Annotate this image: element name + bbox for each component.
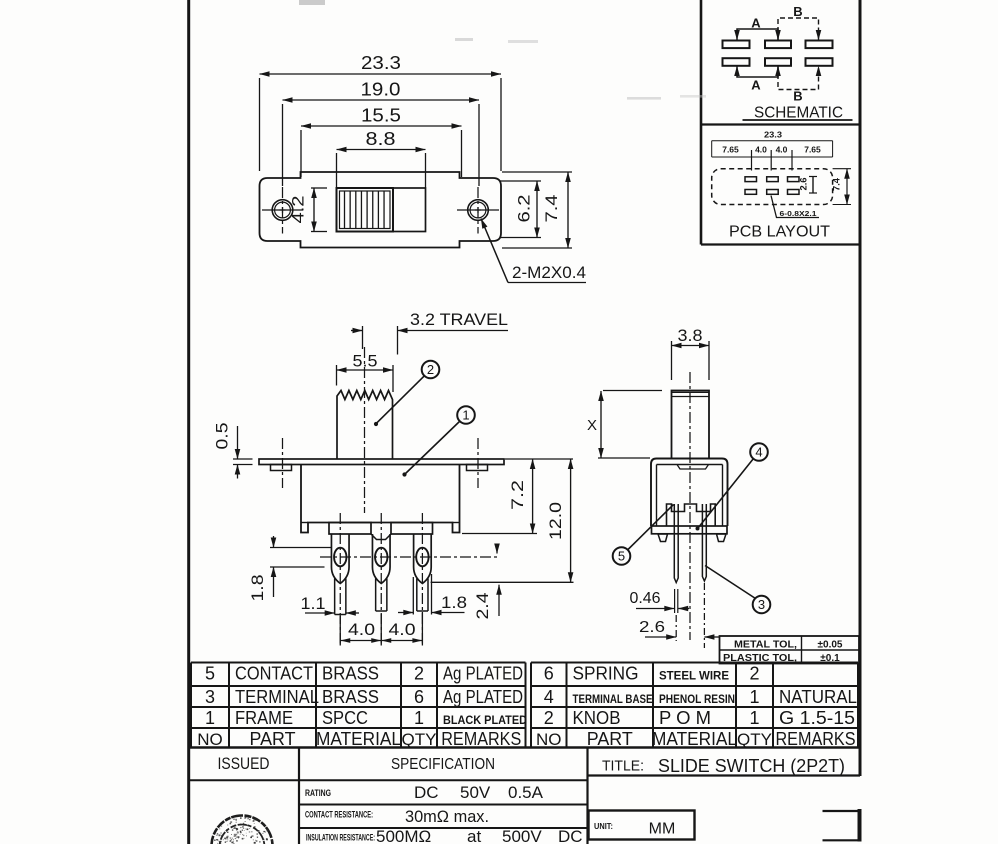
svg-text:TERMINAL BASE: TERMINAL BASE — [573, 694, 653, 706]
svg-text:KNOB: KNOB — [573, 708, 621, 728]
svg-text:MATERIAL: MATERIAL — [316, 729, 401, 749]
svg-text:4.0: 4.0 — [776, 145, 788, 155]
svg-text:2-M2X0.4: 2-M2X0.4 — [512, 264, 586, 282]
svg-text:B: B — [793, 89, 802, 104]
svg-text:Ag PLATED: Ag PLATED — [443, 687, 523, 707]
svg-text:7.65: 7.65 — [722, 145, 739, 155]
svg-text:4: 4 — [755, 445, 762, 460]
svg-text:INSULATION RESISTANCE:: INSULATION RESISTANCE: — [306, 833, 375, 843]
svg-text:PCB LAYOUT: PCB LAYOUT — [729, 224, 831, 241]
svg-text:RATING: RATING — [305, 788, 331, 798]
svg-text:500MΩ: 500MΩ — [376, 827, 431, 844]
svg-text:4.0: 4.0 — [389, 620, 416, 639]
svg-text:PART: PART — [587, 729, 633, 749]
svg-text:TITLE:: TITLE: — [602, 759, 644, 775]
svg-text:REMARKS: REMARKS — [776, 729, 856, 749]
svg-text:SLIDE SWITCH (2P2T): SLIDE SWITCH (2P2T) — [658, 755, 845, 776]
svg-text:BLACK PLATED: BLACK PLATED — [443, 715, 527, 727]
svg-text:4.0: 4.0 — [348, 620, 375, 639]
svg-text:1.8: 1.8 — [248, 575, 267, 602]
svg-text:MATERIAL: MATERIAL — [652, 729, 737, 749]
svg-text:2.4: 2.4 — [473, 593, 492, 620]
svg-text:CONTACT: CONTACT — [235, 664, 313, 684]
svg-text:B: B — [793, 4, 802, 19]
svg-text:REMARKS: REMARKS — [441, 729, 521, 749]
svg-text:6: 6 — [414, 687, 424, 707]
svg-text:30mΩ max.: 30mΩ max. — [405, 807, 489, 826]
svg-text:FRAME: FRAME — [235, 708, 293, 728]
svg-text:7.65: 7.65 — [804, 145, 821, 155]
svg-text:PHENOL RESIN: PHENOL RESIN — [659, 694, 735, 706]
svg-text:3: 3 — [758, 597, 765, 612]
svg-text:4.2: 4.2 — [289, 196, 308, 224]
svg-text:MM: MM — [649, 821, 676, 838]
svg-text:3: 3 — [205, 687, 215, 707]
svg-text:NATURAL: NATURAL — [779, 687, 857, 707]
svg-text:DC: DC — [414, 783, 439, 802]
svg-text:12.0: 12.0 — [546, 502, 565, 540]
svg-text:SPCC: SPCC — [322, 708, 368, 728]
svg-text:7.4: 7.4 — [542, 195, 561, 223]
svg-text:1: 1 — [414, 708, 424, 728]
svg-text:1: 1 — [462, 408, 469, 423]
svg-text:7.4: 7.4 — [832, 178, 842, 191]
svg-text:±0.05: ±0.05 — [818, 639, 843, 650]
svg-text:CONTACT RESISTANCE:: CONTACT RESISTANCE: — [305, 810, 373, 820]
svg-text:2: 2 — [749, 664, 759, 684]
svg-text:A: A — [751, 16, 761, 31]
svg-text:23.3: 23.3 — [361, 53, 401, 73]
svg-text:PART: PART — [250, 729, 296, 749]
svg-text:Ag PLATED: Ag PLATED — [443, 664, 523, 684]
svg-text:BRASS: BRASS — [322, 664, 379, 684]
svg-text:BRASS: BRASS — [322, 687, 379, 707]
svg-text:6-0.8X2.1: 6-0.8X2.1 — [780, 209, 817, 218]
svg-text:DC: DC — [558, 827, 583, 844]
svg-text:SCHEMATIC: SCHEMATIC — [754, 105, 843, 122]
svg-text:8.8: 8.8 — [366, 129, 396, 149]
svg-text:X: X — [587, 417, 597, 434]
svg-text:at: at — [467, 827, 481, 844]
svg-text:2: 2 — [544, 708, 554, 728]
svg-text:1: 1 — [749, 708, 759, 728]
svg-text:50V: 50V — [460, 783, 491, 802]
svg-text:2.6: 2.6 — [639, 619, 665, 636]
svg-text:0.46: 0.46 — [630, 590, 661, 607]
svg-text:2: 2 — [427, 362, 434, 377]
svg-text:G 1.5-15: G 1.5-15 — [779, 708, 855, 728]
svg-text:A: A — [751, 78, 761, 93]
svg-text:TERMINAL: TERMINAL — [235, 687, 319, 707]
svg-text:METAL TOL,: METAL TOL, — [734, 639, 797, 650]
svg-text:4: 4 — [544, 687, 554, 707]
svg-text:2: 2 — [414, 664, 424, 684]
svg-text:P O M: P O M — [659, 708, 711, 728]
svg-text:15.5: 15.5 — [361, 106, 401, 126]
svg-text:7.2: 7.2 — [508, 480, 527, 510]
svg-text:3.8: 3.8 — [678, 326, 703, 345]
svg-text:UNIT:: UNIT: — [594, 822, 613, 831]
svg-text:5: 5 — [618, 549, 625, 564]
svg-text:23.3: 23.3 — [764, 131, 783, 140]
svg-text:1: 1 — [205, 708, 215, 728]
svg-text:3.2 TRAVEL: 3.2 TRAVEL — [410, 311, 508, 329]
svg-text:0.5: 0.5 — [213, 423, 232, 450]
svg-text:ISSUED: ISSUED — [218, 755, 270, 773]
svg-text:0.5A: 0.5A — [508, 783, 544, 802]
svg-text:4.0: 4.0 — [755, 145, 767, 155]
svg-text:500V: 500V — [502, 827, 542, 844]
svg-text:1.1: 1.1 — [301, 594, 326, 613]
svg-text:1: 1 — [749, 687, 759, 707]
svg-text:STEEL WIRE: STEEL WIRE — [659, 671, 729, 683]
svg-text:6.2: 6.2 — [515, 195, 534, 223]
svg-text:5: 5 — [205, 664, 215, 684]
svg-text:2.6: 2.6 — [799, 178, 809, 191]
svg-text:6: 6 — [544, 664, 554, 684]
svg-text:SPECIFICATION: SPECIFICATION — [391, 756, 495, 773]
svg-text:19.0: 19.0 — [361, 80, 401, 100]
svg-text:SPRING: SPRING — [573, 664, 639, 684]
svg-text:1.8: 1.8 — [441, 593, 467, 612]
